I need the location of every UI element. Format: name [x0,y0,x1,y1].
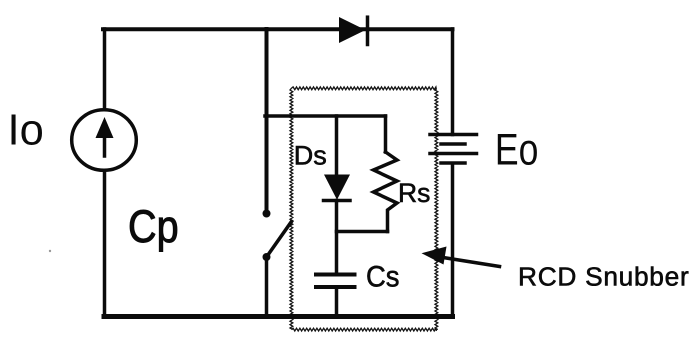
svg-text:Cp: Cp [128,201,179,251]
svg-text:Rs: Rs [398,178,430,208]
svg-text:Io: Io [8,107,44,155]
svg-text:Eo: Eo [495,125,539,175]
svg-text:RCD Snubber: RCD Snubber [518,262,689,292]
svg-text:Cs: Cs [366,260,400,293]
svg-text:Ds: Ds [294,141,327,171]
